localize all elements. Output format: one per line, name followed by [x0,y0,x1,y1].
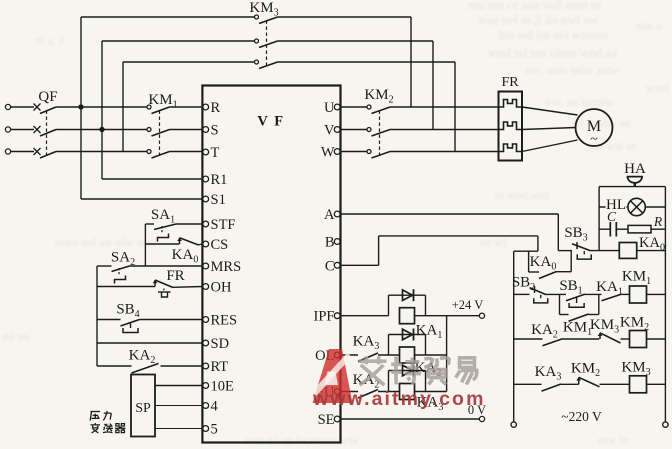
svg-text:wae nel m,jl da nwl aw: wae nel m,jl da nwl aw [478,12,599,27]
pushbutton SB4 [121,320,140,333]
label KA1 coil [416,323,443,342]
label FR contact [166,268,184,284]
svg-text:SE: SE [318,412,335,428]
svg-text:C: C [607,209,617,224]
svg-text:SD: SD [211,336,230,352]
wire SP to 4 [155,405,202,407]
wire KA0 branch riser [570,251,572,272]
label KM3 coil [621,360,650,379]
wire KA3 to KA2 coil [378,354,400,356]
wire L1 to QF [11,106,34,108]
label KA2 on FU [353,372,380,391]
wire CS lead [145,243,179,245]
wire KM2 to FR phase V [390,129,499,131]
svg-text:CS: CS [211,237,229,253]
label KA0 contact [530,254,557,273]
wire C-line drop [537,236,539,251]
label SB3 [564,225,587,244]
wire MRS lead [97,265,112,267]
wire KM2 to KM3 coil [600,383,630,385]
contactor KM2 main contacts [367,105,390,158]
FR heater element 2 [499,122,523,130]
wire SA2 to MRS [130,265,203,267]
wire KM3 drop2 to V [432,41,434,130]
wire KM1 to R terminal [170,106,203,108]
label KA3 rung4 [535,364,562,383]
wire KA1 to KM1 coil [622,293,630,295]
wire FR to OH [173,286,202,289]
wire SB4 to RES [140,319,203,321]
wire A-line [341,213,559,215]
wire alarm left rail [598,187,600,251]
wire SA1 rail [144,224,146,266]
wire SP to 5 [155,428,202,430]
wire KM3 line1 right [278,16,412,18]
svg-text:~220 V: ~220 V [561,409,602,424]
relay contact KA3 rung4 [542,384,562,391]
relay contact KA2 on RT [132,364,159,374]
svg-text:W: W [321,145,335,161]
wire C-line riser [378,236,380,265]
label KM2 [364,87,393,106]
svg-text:V: V [324,123,335,139]
inverter U1 VF block [202,86,340,443]
contactor coil KM1 [630,286,647,303]
label QF [38,89,57,105]
wire control rail left [513,251,515,422]
terminal 220V right [663,422,668,427]
wire KA2 coil right [415,354,447,356]
wire KM3 drop1 to U [410,17,412,107]
terminal 0V [479,416,484,421]
label KA0 coil [639,235,665,254]
svg-text:wml nd ma ulnm wnd aa: wml nd ma ulnm wnd aa [488,45,617,60]
node R-phase junction [78,104,83,109]
wire KA0 branch lead [529,271,539,273]
wire OL lead [341,354,358,356]
wire KM2 to FR phase W [390,151,499,153]
svg-text:mw ln: mw ln [598,433,628,447]
svg-text:www.aitmy.com: www.aitmy.com [312,388,486,410]
wire HL left [599,206,628,208]
switch SA2 [112,266,130,284]
wire C to R [616,228,628,230]
relay contact KA0 on CS [177,238,198,245]
label R1 [653,214,663,229]
label pressure transmitter line1 [90,411,111,421]
pushbutton SB3 NC [572,242,591,259]
svg-text:ne wl: ne wl [480,235,507,249]
svg-text:nw, aete mlw naw: nw, aete mlw naw [525,62,619,77]
label 0V [468,403,486,417]
svg-text:IPF: IPF [314,309,335,325]
svg-text:RT: RT [211,359,229,375]
relay coil KA3 [400,384,415,400]
label KA2 on RT [129,348,156,367]
svg-text:nw, ae temlw: nw, ae temlw [545,94,614,109]
label SP [135,401,151,416]
wire alarm top [599,186,665,188]
wire FR to motor 3 [522,140,578,152]
contact KM3 NC [598,333,621,343]
watermark [309,349,486,410]
wire left control rail [96,266,98,366]
svg-text:m wnd aml: m wnd aml [495,188,550,202]
wire QF-T to node [56,151,123,153]
contactor KM3 bypass contacts [255,15,278,69]
capacitor C1 [610,222,616,237]
pushbutton SB1 NO [566,294,585,307]
wire QF-R to node [56,106,81,108]
svg-text:S1: S1 [211,192,226,208]
VF left terminal pins [203,104,209,431]
contactor coil KM2 [630,331,647,348]
wire SA1 to STF [176,223,202,225]
thermal overload FR block [499,92,523,161]
wire latch right lead [589,314,599,316]
label KA1 contact [596,279,623,298]
wire control rail right [664,187,666,422]
wire latch lead [560,314,569,316]
svg-text:R1: R1 [211,172,228,188]
label +24V [452,298,483,312]
label KM3 [249,0,278,19]
label KM1 coil [622,269,651,288]
wire IPF lead [341,315,389,317]
svg-text:S: S [211,123,219,139]
svg-text:C: C [325,258,335,274]
svg-text:B: B [325,235,335,251]
relay contact KA2 rung3 [543,339,563,346]
wire KM3 line2 left [102,40,255,42]
wire KM3 drop3 to W [454,62,456,152]
wire L2 to QF [11,129,34,131]
svg-text:+24 V: +24 V [452,298,483,312]
label ~220 V [561,409,602,424]
wire rung4 lead [514,383,542,385]
svg-text:A: A [324,207,335,223]
wire C-line [341,264,379,266]
svg-text:STF: STF [211,217,236,233]
svg-text:m a, z: m a, z [35,33,64,47]
relay contact KA0 [539,272,557,279]
wire relay common riser [446,316,448,392]
label KA0 on CS [172,247,199,266]
wire STF lead [145,223,154,225]
label KA2 coil [415,360,442,379]
relay contact KA1 [602,294,622,301]
wire L3 to QF [11,151,34,153]
svg-text:~: ~ [590,132,598,147]
relay coil KA1 [400,308,415,324]
label HA [624,161,646,177]
wire R node to KM1 [81,106,147,108]
bell HA [627,177,643,187]
label SB1 [559,278,582,297]
wire RT lead [97,365,132,367]
diode VD1 [389,289,426,316]
label KM2 NC [571,361,600,380]
terminal +24V [479,313,484,318]
svg-text:10E: 10E [211,379,235,395]
wire U to KM2 [341,106,367,108]
wire SP to 10E [155,385,202,387]
input terminal L1 [5,104,10,109]
contact KM1 latch [569,314,589,321]
wire RES lead [97,319,121,321]
wire KA3 coil right [415,391,447,393]
label KA3 coil [417,395,444,414]
circuit breaker QF [34,104,57,159]
label FR [501,75,519,90]
VF left terminal labels [211,100,242,438]
wire KM1 to T terminal [170,151,203,153]
switch SA1 [154,224,176,242]
relay contact KA3 on OL [358,353,378,362]
wire FR to motor 2 [522,128,576,130]
label C1 [607,209,617,224]
wire KA1 to +24V [415,315,480,317]
svg-text:R: R [211,100,221,116]
wire C-R row left [599,228,610,230]
relay coil KA2 [400,347,415,363]
wire KM3 line2 right [278,40,434,42]
wire S1 feed [81,198,202,200]
wire KA3 to KM2 contact [561,383,579,385]
svg-text:V F: V F [257,114,284,130]
wire KM3 line1 left [81,16,255,18]
label V F [257,114,284,130]
wire FR to motor 1 [522,107,578,115]
wire rung3 lead [514,338,543,340]
wire R to rail [651,228,665,230]
label SA2 [111,250,135,269]
wire rung2 lead [514,293,530,295]
svg-text:RES: RES [211,313,238,329]
wire KA2 to KA3 coil [378,391,400,393]
wire drop R node to S1 [80,107,82,199]
svg-text:mwa nel aw nlw ame: mwa nel aw nlw ame [55,235,157,249]
wire KM2 to FR phase U [390,106,499,108]
wire drop S node to R1 [101,130,103,180]
wire SB2 to SB1 [546,293,566,295]
wire latch right riser [598,294,600,314]
label KM3 NC [590,317,619,336]
wire KA2 to KM3 contact [563,338,600,340]
svg-text:U: U [324,100,335,116]
diode VD3 [389,365,426,392]
relay contact KA2 on FU [358,390,378,399]
wire C-line horizontal [379,235,538,237]
diode VD2 [389,329,426,356]
wire SD lead [97,342,202,344]
wire A-line drop [557,214,559,251]
wire T node to KM1 [123,151,147,153]
FR heater element 3 [499,144,523,152]
input terminal L2 [5,127,10,132]
svg-text:MRS: MRS [211,259,242,275]
wire KM3 line3 left [123,61,255,63]
wire A to SB3 [558,250,572,252]
wire R1 feed [102,178,202,180]
wire QF-S to node [56,129,102,131]
wire riser S to KM3 line2 [101,41,103,130]
wire SE to 0V [341,418,480,420]
svg-text:wml: wml [646,80,670,95]
pushbutton SB2 NC [530,286,548,303]
svg-text:ml na: ml na [2,329,30,343]
wire KA0 coil to rail [637,250,666,252]
wire KM3 to KM2 coil [621,338,630,340]
svg-text:5: 5 [211,422,218,438]
relay coil KA0 [619,243,636,259]
svg-text:R: R [653,214,663,229]
wire KM1 coil to rail [647,293,666,295]
wire SB1 to KA1 [585,293,602,295]
wire FU lead [341,391,358,393]
label pressure transmitter line2 [91,423,126,433]
label SB2 [512,275,535,294]
svg-text:HA: HA [624,161,646,177]
contact KM2 NC [576,377,599,387]
thermal contact FR on OH [153,280,173,297]
svg-text:OH: OH [211,280,232,296]
wire V to KM2 [341,129,367,131]
wire KM3 coil to rail [647,383,666,385]
label KA3 on OL [353,334,380,353]
wire W to KM2 [341,151,367,153]
svg-text:4: 4 [211,399,219,415]
input terminal L3 [5,149,10,154]
svg-text:QF: QF [38,89,57,105]
lamp HL [628,198,645,215]
svg-text:mn a: mn a [636,18,662,33]
wire KM2 coil to rail [647,338,666,340]
wire KM1 to S terminal [170,129,203,131]
resistor R1 [628,225,651,233]
wire latch left [559,294,561,314]
wire KA0 branch drop [528,251,530,272]
svg-text:FR: FR [166,268,184,284]
svg-text:T: T [211,145,220,161]
label KM2 coil [620,315,649,334]
svg-text:lna wd jut ala wnmse: lna wd jut ala wnmse [498,27,609,42]
label KM1 [148,92,177,111]
VF right terminal labels [314,100,335,428]
wire KA2 to RT [161,365,203,367]
label SA1 [151,207,175,226]
svg-text:SP: SP [135,401,151,416]
contactor coil KM3 [630,376,647,393]
pressure transmitter SP block [131,375,155,437]
svg-text:wl manw ne: wl manw ne [572,116,631,130]
wire C-line header [514,250,538,252]
wire KM3 line3 right [278,61,456,63]
wire S node to KM1 [102,129,147,131]
label KM1 latch [563,320,592,339]
svg-text:mu em ce soa wdl aern m: mu em ce soa wdl aern m [468,0,601,12]
wire SB3 to KA0 coil [591,250,620,252]
wire riser R to KM3 line1 [80,17,82,107]
VF right terminal pins [334,104,340,422]
terminal 220V left [511,422,516,427]
label KA2 rung3 [531,322,558,341]
node S-phase junction [99,127,104,132]
label SB4 [116,302,139,321]
wire riser T to KM3 line3 [122,62,124,152]
svg-text:FR: FR [501,75,519,90]
motor M [576,109,613,147]
FR heater element 1 [499,100,523,108]
wire HL right [645,206,665,208]
wire KA0 branch to node [557,271,572,273]
contactor KM1 main contacts [147,105,170,158]
wire KA0 to CS [199,243,203,246]
label HL [606,197,627,213]
wire OH lead [97,286,155,288]
